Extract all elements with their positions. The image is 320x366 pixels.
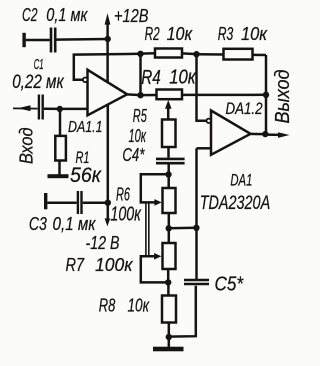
label DA1.1 [68, 119, 103, 136]
output node [262, 131, 268, 137]
svg-text:0,1 мк: 0,1 мк [53, 214, 97, 234]
wire DA1.2 output [250, 133, 265, 136]
capacitor C2 [22, 28, 107, 53]
node R7/R8 [165, 279, 171, 285]
wire R8 bottom [168, 323, 171, 338]
svg-text:R5: R5 [133, 106, 148, 126]
wire DA1.2 +input [197, 147, 212, 150]
wire C5 bottom link [169, 286, 196, 337]
-12V supply line from DA1.1 [107, 104, 110, 220]
svg-text:56к: 56к [70, 163, 102, 187]
label Вход [16, 128, 37, 165]
wire input to DA1.1 [60, 108, 88, 111]
right rail DA1.2 +input down to C5 [195, 148, 198, 279]
ground under R8 [153, 337, 184, 351]
junction C2/+12V [105, 36, 111, 42]
svg-text:R8: R8 [99, 296, 116, 316]
junction R4/output rail [263, 92, 269, 98]
wire R7 bottom to node [167, 269, 170, 282]
capacitor C3 [44, 191, 108, 214]
wire junction to right rail [169, 227, 197, 230]
label C4* [122, 145, 145, 165]
wire R3 right rail down to output [265, 55, 268, 134]
label C5* [215, 274, 245, 296]
svg-text:R2: R2 [145, 24, 160, 44]
node A [137, 51, 143, 57]
svg-text:R4: R4 [141, 67, 161, 89]
label DA1 TDA2320A [200, 171, 271, 215]
svg-text:10к: 10к [128, 296, 151, 316]
wire node A to node B [139, 54, 142, 95]
svg-text:10к: 10к [169, 67, 197, 89]
svg-text:R7: R7 [66, 255, 85, 275]
node C4/R6 [165, 171, 171, 177]
wire DA1.1 output [127, 93, 141, 96]
svg-text:C5*: C5* [215, 274, 245, 296]
label R6 100к [110, 185, 142, 226]
wiper loop of R6 [141, 174, 169, 205]
svg-text:R6: R6 [116, 185, 131, 205]
svg-text:DA1: DA1 [230, 171, 252, 190]
svg-text:DA1.2: DA1.2 [226, 100, 263, 118]
label +12В [114, 6, 149, 26]
label R3 10к [218, 24, 269, 44]
op-amp DA1.1 [83, 70, 127, 116]
capacitor C4 [156, 159, 185, 175]
svg-text:R3: R3 [218, 24, 234, 44]
label R8 10к [99, 296, 150, 316]
wire node to R6 top [167, 175, 170, 189]
op-amp DA1.2 [207, 111, 251, 155]
node R8/C5/ground [166, 334, 172, 340]
svg-text:10к: 10к [241, 24, 268, 44]
label R2 10к [145, 24, 194, 44]
+12V supply arrow [105, 13, 111, 81]
svg-text:C2: C2 [22, 5, 38, 25]
label R7 100к [66, 255, 134, 275]
svg-text:10к: 10к [167, 24, 194, 44]
node R2/R3 [193, 51, 199, 57]
wire R6/R7 junction to R7 top [168, 228, 171, 243]
capacitor C1 [39, 95, 60, 120]
svg-text:0,1 мк: 0,1 мк [46, 5, 88, 25]
svg-text:0,22 мк: 0,22 мк [12, 72, 64, 93]
resistor R1 [55, 109, 66, 175]
svg-text:TDA2320A: TDA2320A [200, 193, 271, 214]
svg-text:10к: 10к [129, 126, 147, 146]
svg-text:100к: 100к [95, 255, 134, 275]
node R6/R7 [166, 225, 172, 231]
svg-text:Вход: Вход [16, 128, 37, 165]
svg-text:-12 В: -12 В [86, 233, 120, 253]
svg-text:C3: C3 [29, 214, 47, 234]
svg-text:Выход: Выход [271, 70, 294, 124]
svg-text:C1: C1 [34, 56, 44, 73]
label C2 0,1мк [22, 5, 88, 25]
resistor R2 [141, 49, 197, 58]
label C1 0,22мк [12, 56, 64, 93]
label -12В [86, 233, 120, 253]
node input junction [57, 106, 63, 112]
label Выход [271, 70, 294, 124]
ground under R1 [48, 174, 69, 178]
resistor R7 (variable) [163, 243, 176, 269]
resistor R6 (variable) [163, 188, 176, 213]
wiper arrow of R4 [165, 100, 172, 120]
svg-text:+12В: +12В [114, 6, 149, 26]
resistor R3 [197, 49, 267, 60]
capacitor C5 [184, 280, 209, 284]
wire feedback DA1.1 [74, 54, 141, 80]
resistor R8 [162, 296, 176, 323]
output arrow Выход [265, 132, 289, 138]
label R5 10к [129, 106, 148, 146]
resistor R5 [162, 120, 176, 158]
svg-text:DA1.1: DA1.1 [68, 119, 103, 136]
svg-text:C4*: C4* [122, 145, 145, 165]
label DA1.2 [226, 100, 263, 118]
svg-text:100к: 100к [110, 204, 142, 226]
gang coupling lines R6-R7 [146, 202, 149, 256]
node on right rail [193, 225, 199, 231]
wire R6 bottom to junction [168, 213, 171, 228]
wire node to R8 top [167, 282, 170, 295]
-12V arrow [105, 218, 111, 226]
node B [137, 92, 143, 98]
junction C3/-12V [105, 200, 111, 206]
label C3 0,1мк [29, 214, 97, 234]
input terminal arrow Вход [13, 105, 38, 111]
label R1 56к [70, 149, 102, 187]
wire node R2/R3 down to DA1.2 inverting input [197, 54, 207, 121]
wiper loop of R7 [141, 253, 168, 282]
label R4 10к [141, 67, 197, 90]
resistor R4 (variable) [141, 90, 267, 100]
